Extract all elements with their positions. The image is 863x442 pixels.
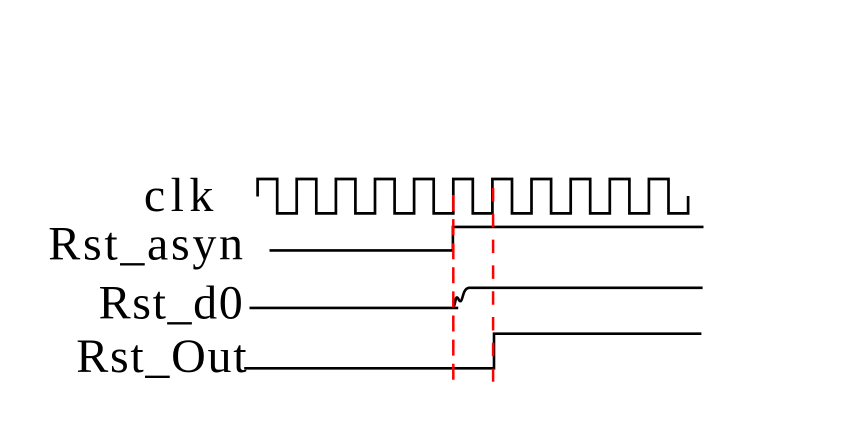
svg-text:clk: clk	[144, 169, 214, 222]
wire Rst_asyn waveform	[270, 227, 704, 251]
svg-text:Rst_d0: Rst_d0	[99, 277, 243, 330]
wire clk waveform	[258, 179, 688, 213]
wire Rst_d0 metastable squiggle and high segment	[453, 288, 703, 308]
red dashed marker line 2 (second clock edge)	[492, 188, 495, 382]
wire Rst_Out waveform	[244, 334, 701, 369]
svg-text:Rst_Out: Rst_Out	[76, 330, 247, 383]
red dashed marker line 1 (first clock edge after reset release)	[452, 195, 455, 381]
wire Rst_d0 low segment	[250, 307, 459, 310]
